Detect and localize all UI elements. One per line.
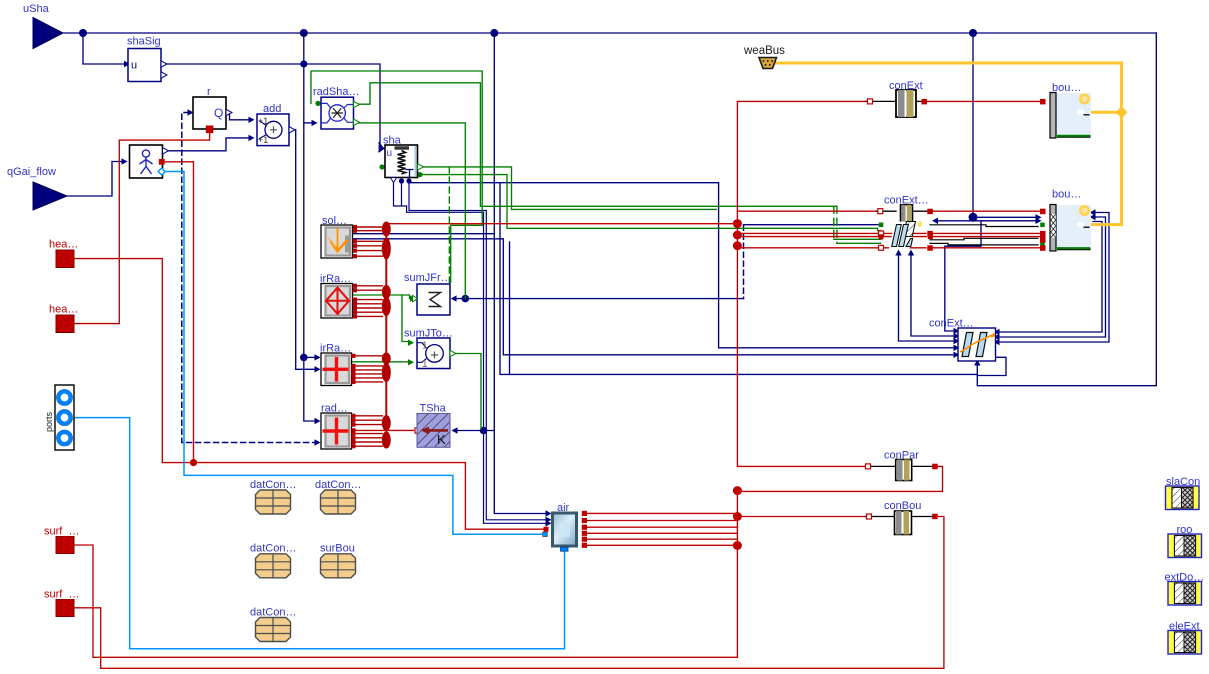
wire green radSha in1 loop — [311, 71, 482, 283]
wire TSha input line — [453, 430, 494, 432]
wire sha bottom port a to air input3 — [394, 179, 547, 523]
wire sha long line to right — [410, 183, 954, 348]
block add — [257, 114, 295, 146]
block conExt wall — [896, 90, 916, 117]
connector weaBus icon — [759, 58, 777, 69]
wire red rows conExt2 233/236/248 — [737, 232, 878, 234]
svg-text:weaBus: weaBus — [743, 45, 785, 57]
block bou1 boundary — [1050, 93, 1091, 139]
block radSha product — [321, 97, 360, 129]
connector hea2 heat port — [56, 315, 74, 333]
YELLOW WIRES — [776, 63, 1122, 225]
svg-text:shaSig: shaSig — [127, 36, 161, 48]
input connector qGai_flow — [33, 182, 67, 210]
wire green sha out1 — [421, 167, 716, 210]
node uSha junction dots — [79, 29, 87, 37]
CYAN WIRES — [75, 172, 565, 649]
node yellow diamond junction — [1116, 106, 1128, 118]
bus red vertical collector — [385, 226, 387, 447]
svg-text:u: u — [131, 60, 137, 72]
block TSha prescribed temperature — [417, 414, 450, 448]
block rad plus — [321, 413, 352, 449]
wire dashed conditional to r input and rad in2 — [182, 113, 314, 443]
fan rad to bus — [351, 414, 383, 449]
wire black row A — [930, 225, 1038, 227]
block r — [193, 97, 232, 133]
record eleExt — [1168, 631, 1202, 655]
svg-text:sha: sha — [383, 135, 402, 147]
wire red hea2 to r block — [75, 131, 210, 324]
node green ports at sha — [379, 164, 384, 169]
wire yellow branch to bou1 — [1084, 111, 1122, 114]
input connector uSha — [33, 18, 63, 49]
block sumJTo — [417, 338, 456, 370]
block conExtWin window — [958, 328, 996, 361]
svg-text:conExt: conExt — [889, 80, 923, 92]
wire sol out1 long to air input1 — [353, 234, 546, 514]
block air volume — [553, 513, 577, 551]
svg-text:sumJTo…: sumJTo… — [404, 328, 453, 340]
block irRa2 plus — [321, 353, 352, 386]
node red bus dots — [733, 219, 742, 228]
wire conExt2 glass to window ports — [899, 254, 955, 341]
fan irRa2 to bus — [351, 354, 383, 384]
wire red conPar loop — [737, 465, 868, 467]
block sha — [385, 145, 424, 183]
record surBou — [321, 554, 356, 578]
svg-text:surBou: surBou — [320, 543, 355, 555]
svg-text:bou…: bou… — [1052, 82, 1081, 94]
fan irRa1 to bus — [353, 284, 383, 319]
svg-text:add: add — [263, 103, 281, 115]
block conPar wall — [896, 460, 912, 481]
wire red TSha row — [353, 429, 414, 431]
svg-text:K: K — [437, 432, 446, 447]
svg-text:conPar: conPar — [884, 450, 919, 462]
fan sol to bus — [353, 225, 383, 258]
wire green radSha out1 long — [354, 83, 837, 207]
wire yellow weaBus trunk — [776, 63, 1122, 225]
wire sha bottom port b to air input2 — [409, 181, 546, 520]
wire black stubs conExt row — [866, 100, 896, 102]
wire red sol long row — [388, 223, 737, 225]
svg-text:u: u — [387, 148, 393, 159]
block shaSig — [128, 49, 167, 82]
wire uSha branch to radSha in2 — [304, 122, 312, 124]
record roo — [1168, 534, 1202, 558]
svg-text:irRa…: irRa… — [320, 343, 351, 355]
wire uSha right vertical to window bottom — [977, 33, 1156, 386]
block heaGai person — [130, 145, 169, 178]
small green port squares band — [1040, 223, 1045, 228]
wire green dashed to sumJFr top — [448, 167, 450, 283]
record datCon2 — [321, 490, 356, 514]
block conExt2 wall part — [901, 205, 913, 222]
svg-text:hea…: hea… — [49, 304, 78, 316]
wire black row C — [930, 243, 1038, 245]
svg-text:eleExt: eleExt — [1169, 621, 1200, 633]
svg-text:datCon…: datCon… — [315, 479, 361, 491]
wire red heaGai down — [165, 162, 194, 463]
wire sol out2 to window port4 line — [353, 239, 954, 355]
wire add output to irRa2 in2 — [289, 130, 315, 369]
connector surf1 heat port — [56, 537, 74, 554]
wire green irRa2 to sumJTo in2 — [353, 361, 409, 363]
svg-text:uSha: uSha — [23, 3, 50, 15]
svg-text:surf_…: surf_… — [44, 589, 79, 601]
svg-text:datCon…: datCon… — [250, 543, 296, 555]
wire red conBou loop — [737, 516, 866, 518]
svg-text:1: 1 — [422, 359, 428, 370]
svg-text:datCon…: datCon… — [250, 479, 296, 491]
svg-text:hea…: hea… — [49, 239, 78, 251]
open/filled red squares on rows — [415, 99, 1046, 537]
wire window self loop right to bottom — [977, 357, 1006, 375]
wire long line y374 to window bottom loop — [500, 183, 977, 375]
svg-text:roo: roo — [1177, 524, 1193, 536]
svg-text:conExt…: conExt… — [884, 195, 929, 207]
block conExt2 glass part — [889, 221, 922, 248]
svg-text:+1: +1 — [258, 135, 268, 145]
svg-text:surf_…: surf_… — [44, 526, 79, 538]
wire black row B — [930, 238, 1038, 240]
svg-text:conBou: conBou — [884, 500, 921, 512]
svg-text:sol…: sol… — [322, 215, 347, 227]
wire uSha to bou2 — [972, 33, 974, 217]
record slaCon — [1166, 486, 1200, 510]
record extDo — [1168, 582, 1202, 606]
connector hea1 heat port — [56, 250, 74, 268]
connector ports fluid — [44, 385, 74, 450]
block bou2 boundary — [1050, 205, 1091, 252]
svg-text:r: r — [207, 86, 211, 98]
svg-text:1: 1 — [422, 341, 428, 352]
wire red hea1 to air — [75, 259, 544, 530]
svg-text:irRa…: irRa… — [320, 273, 351, 285]
wire qGai_flow to heaGai — [67, 162, 122, 197]
wire red surf1 to bus — [75, 545, 738, 657]
wire red conExt row — [737, 100, 866, 102]
svg-text:conExt…: conExt… — [929, 318, 974, 330]
block sumJFr — [413, 284, 451, 315]
svg-text:air: air — [557, 502, 570, 514]
wire uSha top bus — [63, 32, 1156, 34]
svg-text:radSha…: radSha… — [313, 86, 359, 98]
svg-text:+1: +1 — [258, 116, 268, 126]
wire green sha out2 — [421, 175, 881, 231]
wire cyan ports to air bottom — [75, 418, 565, 649]
wire heaGai out1 to add in2 — [165, 138, 249, 151]
wire uSha to shaSig input — [83, 33, 125, 64]
svg-text:qGai_flow: qGai_flow — [7, 166, 56, 178]
BLACK BAND ROWS — [866, 101, 1038, 516]
svg-text:ports: ports — [44, 411, 54, 432]
wire cyan heaGai to air left — [165, 172, 542, 535]
wire red main bus vertical — [736, 101, 738, 466]
svg-text:Q: Q — [214, 106, 223, 120]
svg-text:TSha: TSha — [420, 403, 447, 415]
block conBou wall — [895, 511, 912, 535]
svg-text:rad…: rad… — [321, 403, 348, 415]
block sol — [321, 225, 353, 258]
wire red air fan rows — [582, 511, 587, 516]
record datCon3 — [256, 554, 291, 578]
wire green irRa1 to sumJFr — [353, 295, 411, 299]
wire shaSig output to sha input — [161, 64, 380, 146]
block irRa1 diamond — [321, 284, 353, 319]
wire bou2 right hooks to window right ports — [999, 213, 1109, 343]
wire sumJFr right line — [456, 298, 744, 300]
wire green sumJTo out — [450, 354, 481, 430]
wire uSha mid vertical x=496 — [493, 33, 495, 234]
wire red conExt2 row 211 — [737, 210, 877, 212]
connector surf2 heat port — [56, 600, 74, 617]
wire dashed blue right of bus — [743, 225, 745, 298]
wire conExtWin shade line to bou2 and conExt2 — [935, 220, 1036, 222]
svg-text:extDo…: extDo… — [1165, 572, 1205, 584]
svg-text:sumJFr…: sumJFr… — [404, 272, 452, 284]
RED WIRES — [75, 101, 1041, 668]
record datCon1 — [256, 490, 291, 514]
wire green irRa1 branch to sumJTo in1 — [402, 295, 409, 342]
svg-text:slaCon: slaCon — [1166, 476, 1200, 488]
svg-text:datCon…: datCon… — [250, 607, 296, 619]
svg-text:bou…: bou… — [1052, 189, 1081, 201]
node dot irRa2 feed — [300, 354, 308, 362]
record datCon5 — [256, 618, 291, 642]
GREEN WIRES — [311, 71, 881, 429]
wire uSha vertical branch x=304 — [304, 33, 315, 421]
wire r output to add in1 — [229, 113, 250, 120]
wire green radSha out2 to sumJFr dot — [354, 123, 466, 299]
